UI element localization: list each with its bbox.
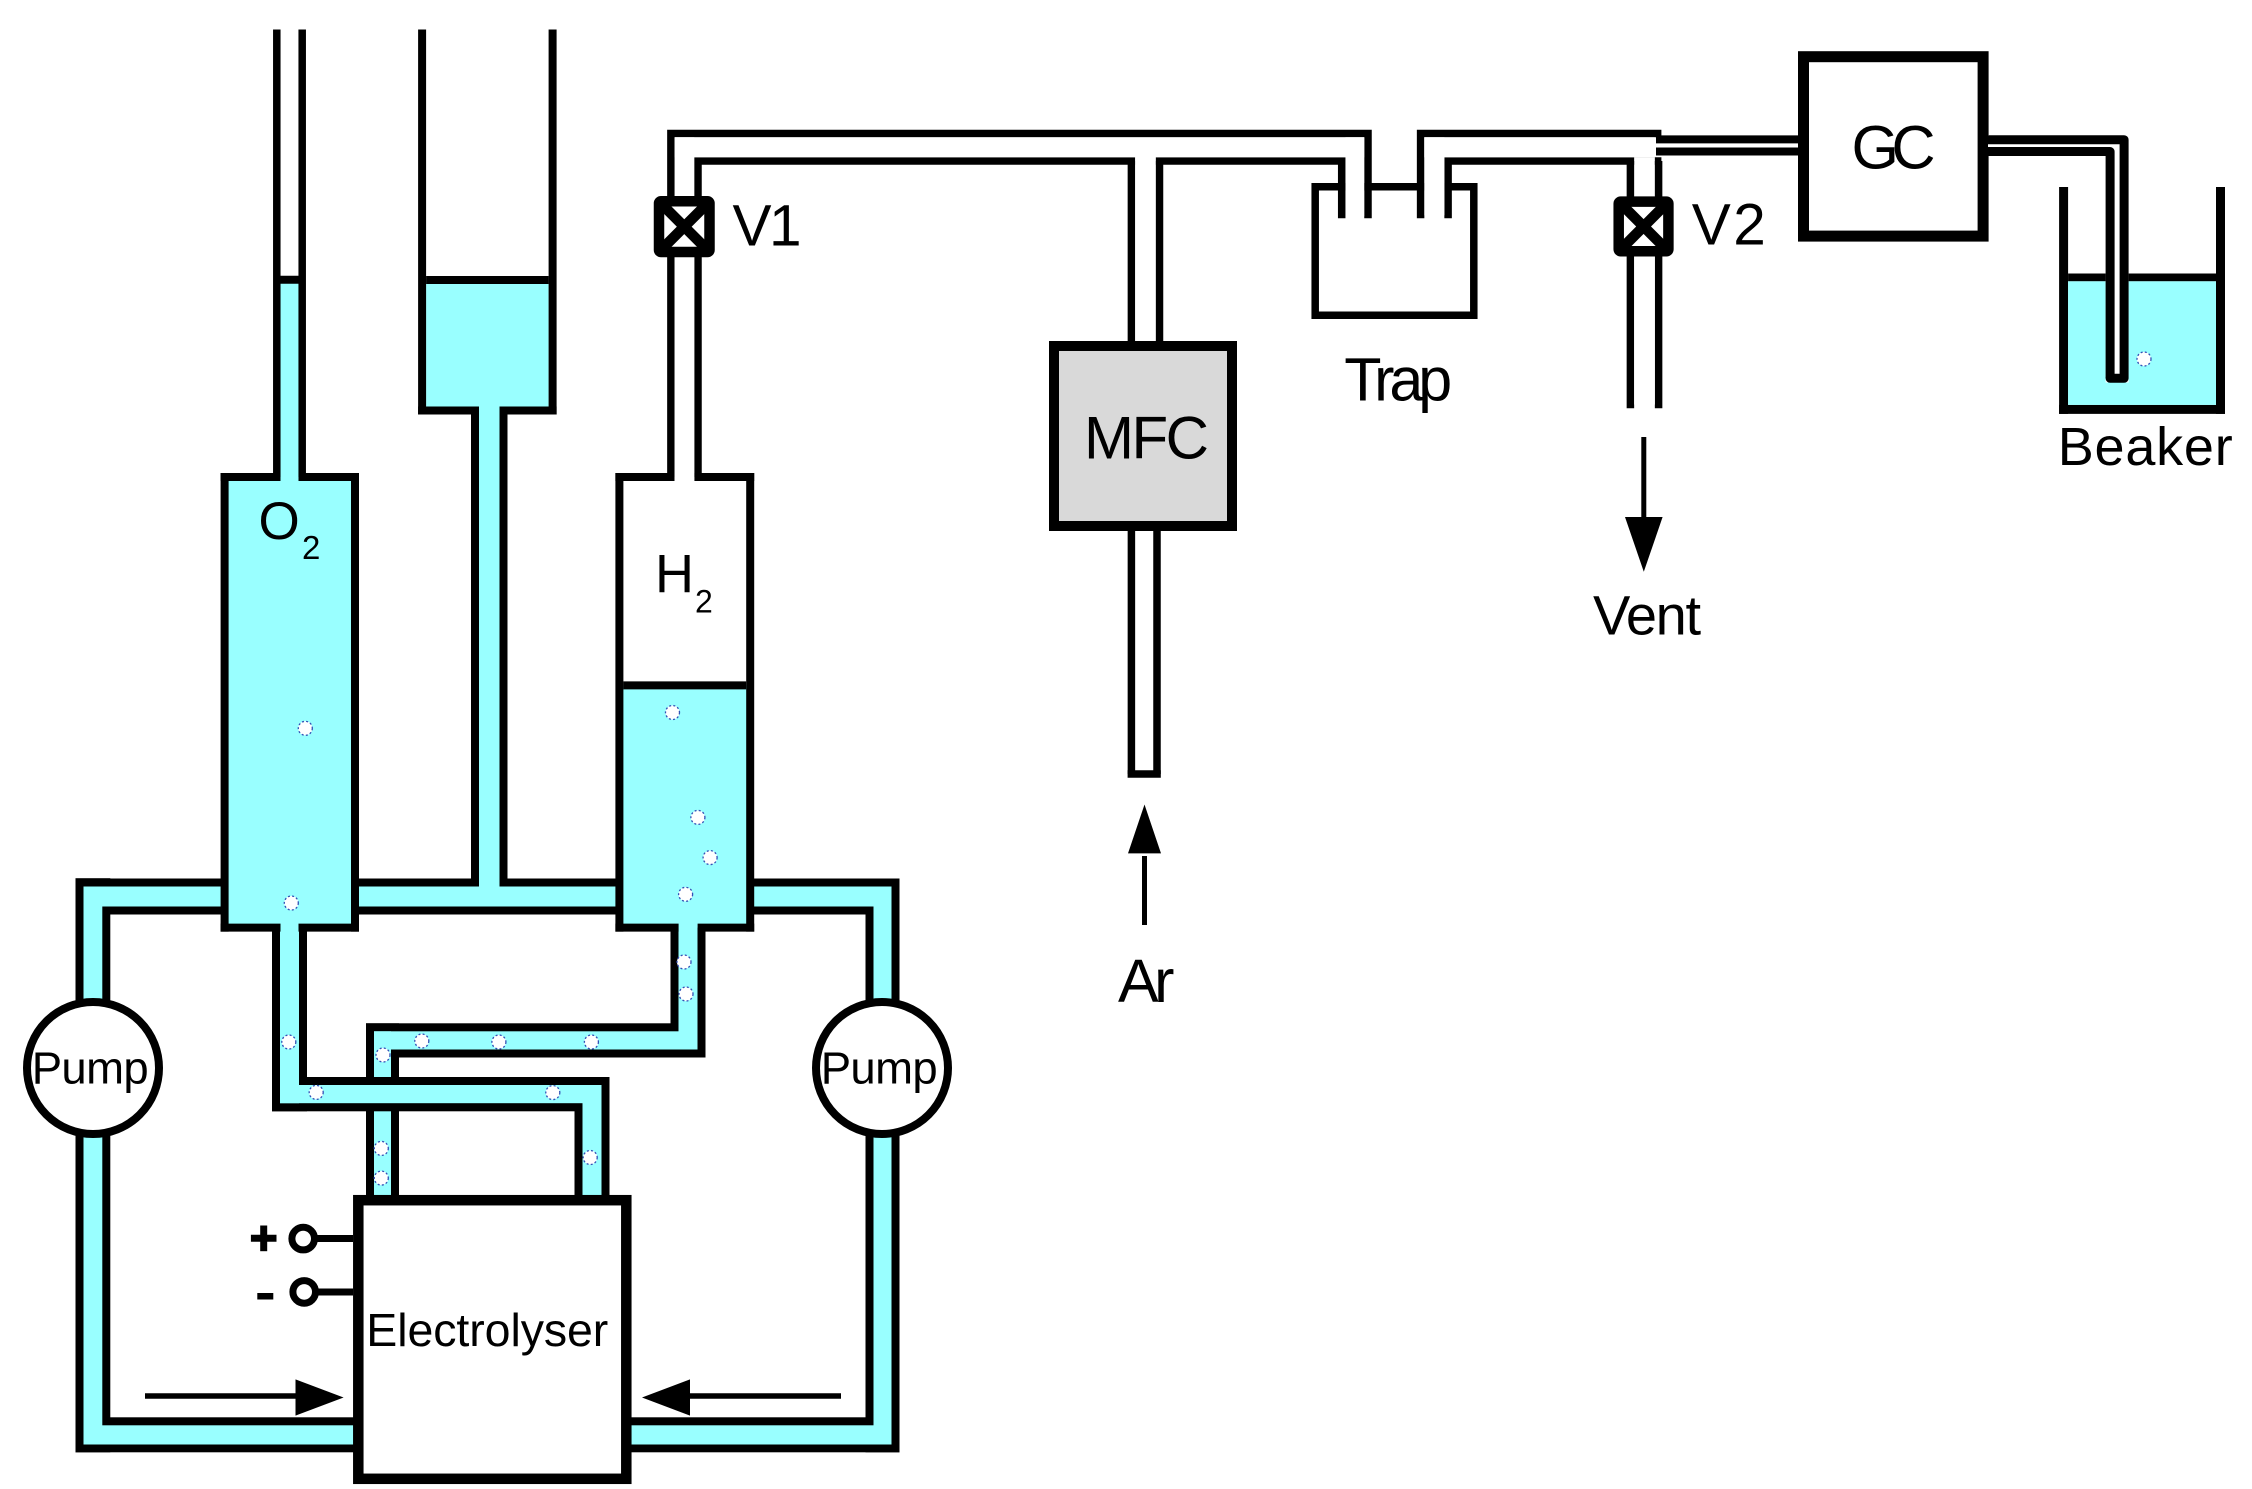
- svg-text:MFC: MFC: [1084, 404, 1209, 471]
- svg-text:GC: GC: [1852, 114, 1936, 182]
- svg-text:H: H: [655, 544, 694, 604]
- svg-text:2: 2: [302, 529, 320, 566]
- svg-text:O: O: [259, 492, 300, 551]
- svg-text:V1: V1: [733, 194, 802, 259]
- svg-text:Vent: Vent: [1593, 583, 1701, 646]
- svg-text:Trap: Trap: [1344, 345, 1452, 413]
- svg-text:Beaker: Beaker: [2058, 417, 2233, 477]
- svg-text:Ar: Ar: [1118, 947, 1175, 1015]
- svg-text:V2: V2: [1692, 192, 1766, 257]
- svg-text:2: 2: [695, 584, 713, 620]
- svg-text:Pump: Pump: [821, 1042, 938, 1093]
- svg-text:Pump: Pump: [32, 1042, 149, 1093]
- svg-text:Electrolyser: Electrolyser: [366, 1304, 608, 1356]
